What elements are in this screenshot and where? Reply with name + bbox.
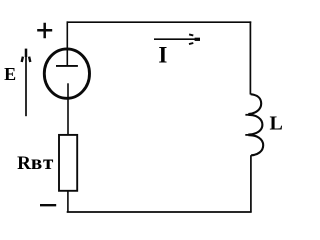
inductor cusp hook 2 (245, 134, 249, 136)
inductor cusp hook 1 (245, 114, 249, 116)
inductor coil arc 3 (248, 135, 263, 155)
wire right upper vertical (249, 21, 251, 94)
wire right lower vertical (250, 155, 252, 212)
plus polarity sign (37, 23, 52, 39)
inductor L coil (248, 94, 261, 114)
resistor Rvt body (59, 135, 77, 191)
minus polarity sign (40, 204, 56, 206)
svg-text:E: E (4, 64, 16, 84)
EMF arrow left barb (22, 57, 23, 62)
svg-text:I: I (158, 43, 167, 68)
wire from resistor bottom to bottom rail (67, 191, 69, 212)
voltage source E1 circle (44, 49, 89, 98)
EMF arrow tip dash (25, 49, 28, 57)
source internal lower lead / wire to resistor (67, 83, 69, 135)
inductor coil arc 2 (248, 115, 262, 135)
current arrow tip blob (195, 38, 200, 41)
wire bottom horizontal (67, 211, 252, 213)
source internal plate bar (56, 65, 78, 67)
EMF arrow right barb (29, 57, 30, 62)
current arrow upper barb (189, 34, 193, 35)
svg-text:L: L (270, 113, 283, 135)
current arrow lower barb (189, 43, 193, 44)
wire top horizontal (67, 21, 252, 23)
wire left vertical from top corner into source (66, 21, 68, 65)
EMF arrow shaft (25, 52, 27, 116)
current arrow shaft (154, 38, 197, 40)
svg-text:Rвт: Rвт (17, 150, 55, 174)
